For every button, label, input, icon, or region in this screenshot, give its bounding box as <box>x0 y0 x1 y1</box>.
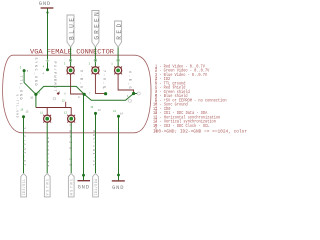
svg-text:VGA FEMALE CONNECTOR: VGA FEMALE CONNECTOR <box>30 48 114 55</box>
svg-text:ID0->GND; ID2->GND => >=1024,: ID0->GND; ID2->GND => >=1024, color <box>153 129 247 134</box>
svg-text:RED: RED <box>116 24 123 40</box>
svg-text:SYNC_GND: SYNC_GND <box>34 58 38 86</box>
svg-text:5-TTL_GND: 5-TTL_GND <box>16 95 19 118</box>
svg-text:GND: GND <box>78 185 90 191</box>
svg-text:ID1/SDA: ID1/SDA <box>94 179 98 196</box>
svg-text:PU/PWRMGT: PU/PWRMGT <box>53 62 57 92</box>
svg-text:ID3/SCL: ID3/SCL <box>22 179 26 196</box>
svg-text:15 - ID3 - DDC Clock - SCL: 15 - ID3 - DDC Clock - SCL <box>153 124 210 129</box>
svg-text:GND: GND <box>39 1 51 7</box>
svg-text:GND: GND <box>112 185 124 191</box>
svg-text:14-VSYNC: 14-VSYNC <box>47 137 51 167</box>
svg-text:15-ID3/SCL: 15-ID3/SCL <box>23 127 28 166</box>
svg-text:12-ID1/SDA: 12-ID1/SDA <box>92 129 97 166</box>
